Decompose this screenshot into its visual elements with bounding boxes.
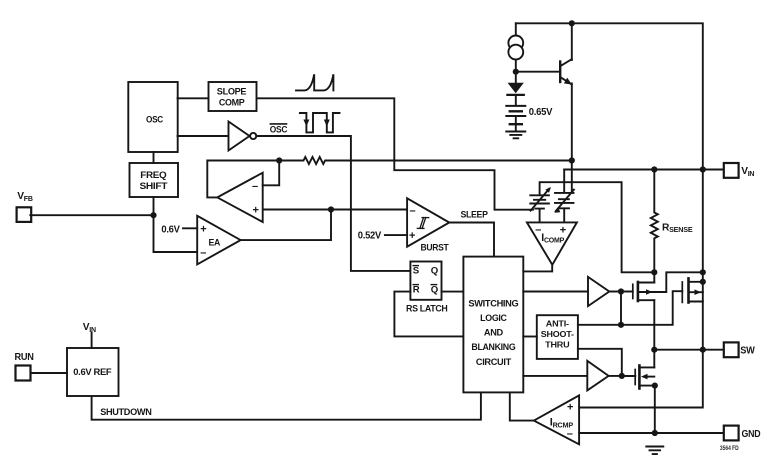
svg-text:S: S — [413, 266, 420, 277]
svg-text:OSC: OSC — [146, 114, 163, 125]
node bottom driver output — [619, 373, 625, 379]
svg-text:3564 FD: 3564 FD — [720, 445, 739, 452]
pad RUN — [16, 366, 31, 381]
ground below battery — [506, 132, 525, 139]
burst comparator — [407, 198, 449, 246]
svg-text:OSC: OSC — [270, 125, 288, 136]
wire VIN stub to ref box — [91, 333, 93, 349]
svg-text:CIRCUIT: CIRCUIT — [476, 357, 511, 368]
FREQ SHIFT box — [130, 163, 179, 197]
svg-text:VIN: VIN — [741, 166, 754, 178]
sawtooth waveform icon — [296, 74, 333, 90]
anti-shoot-thru box — [537, 315, 578, 359]
wire caps to PMOS source node — [540, 182, 655, 272]
svg-text:–: – — [252, 180, 258, 192]
wire FREQ SHIFT to VFB node — [153, 197, 155, 215]
switching logic box — [463, 257, 523, 393]
wire base — [516, 71, 560, 73]
resistor R1 compensation — [279, 157, 572, 164]
wire to anti-shoot-thru — [523, 336, 537, 338]
svg-text:–: – — [567, 428, 573, 440]
bottom gate driver U5 — [587, 361, 608, 391]
svg-text:SLOPE: SLOPE — [217, 86, 247, 97]
svg-text:0.6V REF: 0.6V REF — [73, 367, 111, 378]
wire top rail — [516, 23, 703, 349]
wire slope comp output to ICOMP minus — [257, 98, 533, 209]
svg-text:BLANKING: BLANKING — [471, 342, 515, 353]
node anti-shoot junction — [618, 322, 624, 328]
wire 0.52V to burst plus — [385, 234, 407, 236]
comparator IRCMP — [534, 395, 579, 444]
svg-text:RSENSE: RSENSE — [662, 222, 693, 234]
svg-text:SHUTDOWN: SHUTDOWN — [100, 407, 152, 418]
svg-text:SHIFT: SHIFT — [140, 181, 168, 192]
svg-text:AND: AND — [484, 327, 503, 338]
svg-text:ANTI-: ANTI- — [546, 318, 569, 328]
RS latch U3 — [410, 262, 441, 300]
svg-text:–: – — [410, 205, 416, 217]
svg-text:0.52V: 0.52V — [358, 231, 382, 242]
wire SLEEP output — [449, 223, 494, 257]
wire R latch input — [394, 292, 463, 337]
wire 0.6V to EA plus — [183, 227, 197, 229]
svg-text:BURST: BURST — [421, 243, 449, 254]
resistor RSENSE — [651, 170, 658, 273]
wire SW line — [654, 349, 723, 351]
wire VFB node to EA minus — [154, 215, 198, 252]
svg-text:–: – — [200, 247, 206, 259]
wire IRCMP minus to GND pad — [579, 432, 723, 434]
transistor Q1 PMOS main — [632, 284, 634, 298]
transistor Q4 NPN — [559, 62, 561, 83]
svg-text:SLEEP: SLEEP — [461, 209, 489, 220]
pad GND — [724, 426, 739, 441]
node VFB junction — [150, 212, 156, 218]
comparator ICOMP — [527, 222, 577, 264]
wire IRCMP plus to SW — [579, 350, 703, 408]
svg-text:–: – — [535, 224, 541, 236]
inverter U2 — [229, 122, 250, 151]
diode D1 — [515, 72, 517, 83]
wire OSC to inverter — [178, 135, 229, 137]
node EA output junction — [328, 206, 334, 212]
wire VIN to right cap — [563, 170, 565, 193]
svg-text:0.65V: 0.65V — [529, 107, 553, 118]
square waveform icon — [300, 113, 340, 132]
wire emitter to ITH node — [571, 84, 573, 193]
svg-text:SWITCHING: SWITCHING — [468, 299, 518, 310]
ground symbol bottom — [646, 447, 663, 455]
svg-text:+: + — [560, 224, 566, 236]
svg-text:SHOOT-: SHOOT- — [541, 329, 574, 339]
transistor Q2 PMOS sync — [681, 282, 683, 302]
svg-text:R: R — [413, 285, 420, 296]
wire ICOMP output — [523, 266, 552, 272]
hysteresis symbol burst — [417, 218, 428, 229]
wire to top gate driver — [523, 291, 588, 293]
node driver output — [618, 288, 624, 294]
svg-text:LOGIC: LOGIC — [480, 313, 507, 324]
wire top driver to PMOS gate — [609, 291, 633, 293]
error amp EA — [197, 216, 240, 265]
wire to bottom gate driver — [523, 375, 587, 377]
svg-text:+: + — [200, 223, 206, 235]
wire OSC to SLOPE COMP — [178, 97, 209, 99]
0.6V REF box — [67, 348, 119, 396]
node ground junction — [652, 430, 658, 436]
wire EA output — [241, 210, 331, 241]
pad SW — [724, 342, 739, 357]
wire OSCbar output to RS latch S input — [256, 136, 410, 271]
wire VIN rail — [564, 169, 723, 171]
svg-text:Q: Q — [431, 285, 439, 296]
svg-text:FREQ: FREQ — [140, 170, 167, 181]
svg-text:+: + — [253, 204, 259, 216]
svg-text:VFB: VFB — [17, 191, 33, 203]
wire anti-shoot top output — [578, 291, 682, 325]
SLOPE COMP box — [209, 82, 257, 111]
svg-text:COMP: COMP — [219, 97, 245, 108]
top gate driver U4 — [588, 277, 609, 306]
wire bottom driver to NMOS gate — [609, 375, 636, 377]
battery 0.65V — [506, 105, 525, 107]
wire ITH feedback loop — [207, 161, 279, 198]
wire VFB to node — [30, 214, 153, 216]
svg-text:+: + — [567, 402, 573, 414]
pad VIN — [724, 163, 739, 178]
svg-text:GND: GND — [742, 429, 761, 440]
svg-text:THRU: THRU — [545, 340, 569, 350]
wire anti-shoot bottom output — [578, 349, 622, 376]
svg-text:RS LATCH: RS LATCH — [406, 304, 448, 315]
VFB pad — [17, 207, 32, 222]
svg-text:Q: Q — [431, 266, 439, 277]
svg-text:SW: SW — [740, 346, 755, 357]
wire RUN to ref box — [31, 372, 68, 374]
wire NMOS source to ground — [654, 386, 656, 433]
transistor Q3 NMOS — [634, 370, 636, 385]
OSC box — [128, 82, 177, 152]
node feedback junction — [276, 157, 282, 163]
capacitor C2 variable — [555, 193, 574, 208]
svg-text:RUN: RUN — [15, 352, 34, 363]
current source I1 — [515, 23, 517, 35]
svg-text:+: + — [409, 230, 415, 242]
svg-text:EA: EA — [209, 238, 221, 249]
wire ITH plus line — [263, 209, 407, 211]
svg-text:VIN: VIN — [83, 322, 96, 334]
svg-text:0.6V: 0.6V — [161, 224, 180, 235]
wire OSC to FREQ SHIFT — [153, 152, 155, 163]
wire Q bar output — [442, 291, 464, 293]
wire to IRCMP input — [510, 392, 534, 420]
wire shutdown — [92, 392, 481, 419]
capacitor C1 variable — [530, 195, 549, 208]
